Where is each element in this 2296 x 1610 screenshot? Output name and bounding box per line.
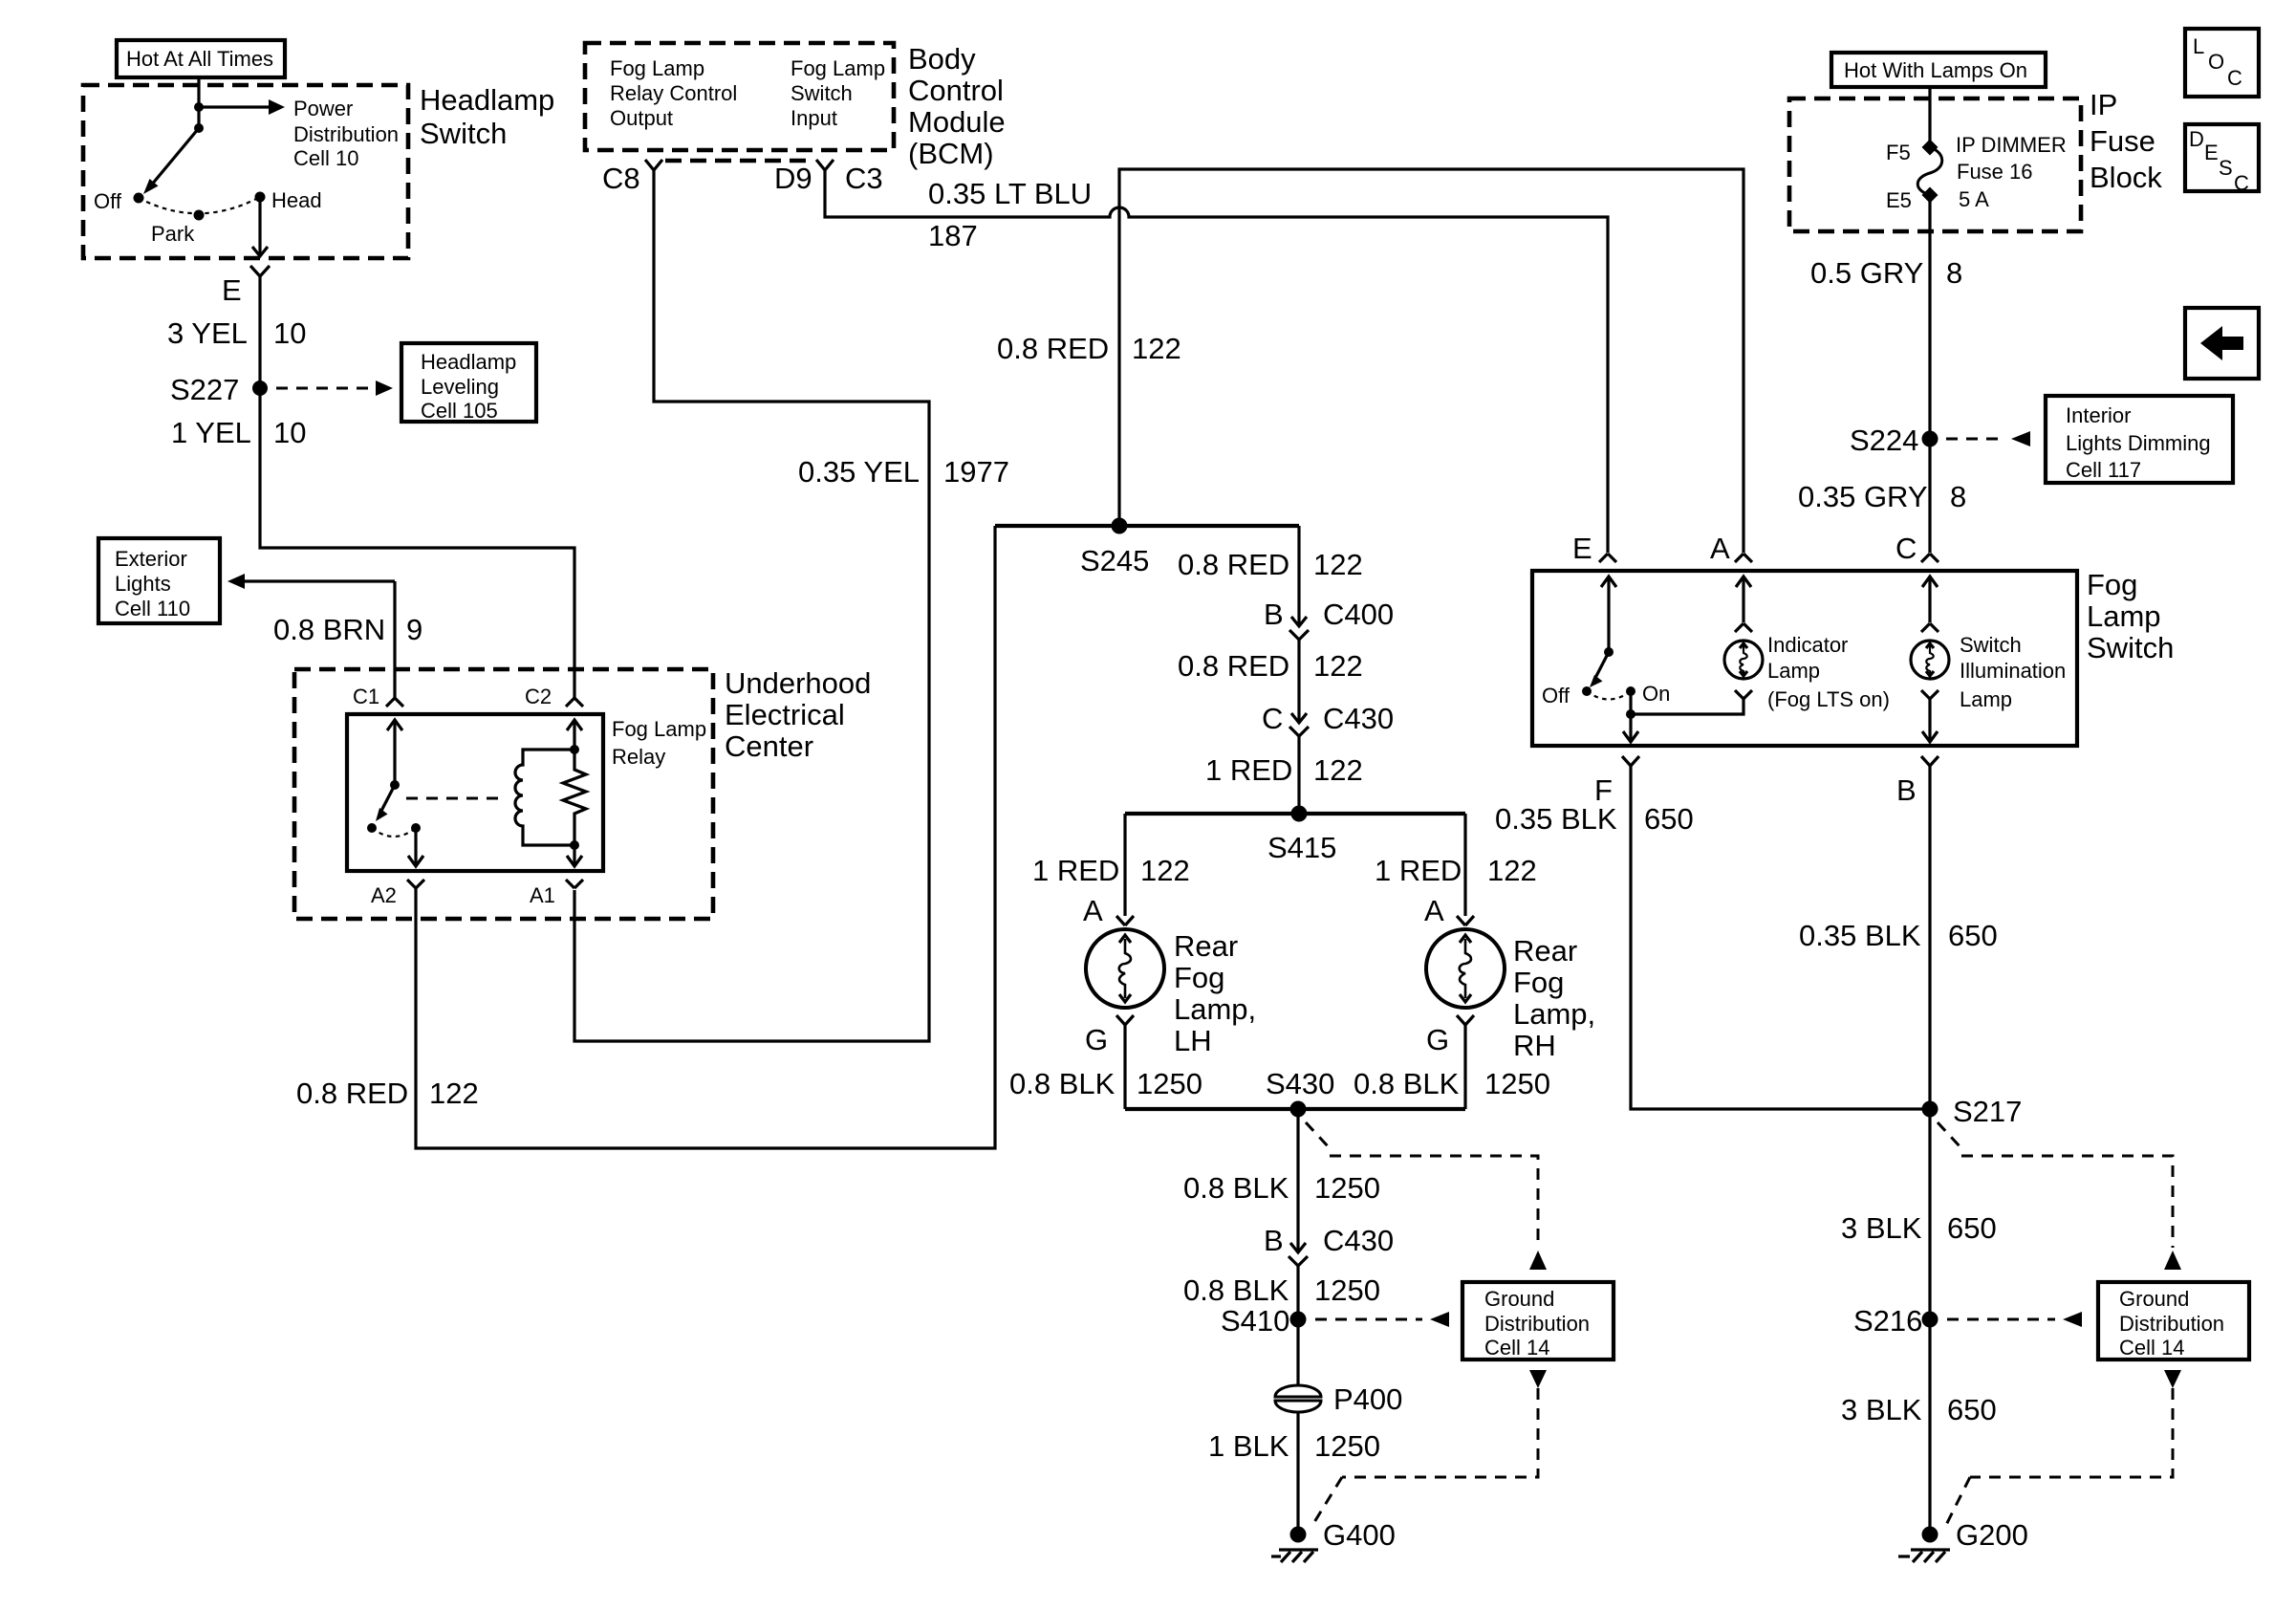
svg-text:650: 650 [1948,919,1998,952]
connector female chevron at RH lamp G [1457,1015,1474,1025]
svg-text:Off: Off [1542,684,1570,707]
connector B female chevron below box [1921,756,1939,766]
svg-text:Distribution: Distribution [2119,1312,2224,1336]
svg-text:Lamp,: Lamp, [1513,997,1595,1031]
label 0.5 GRY 8 [1810,256,1962,290]
svg-text:Fuse: Fuse [2090,124,2155,158]
svg-text:Lamp: Lamp [1960,687,2012,711]
svg-text:Fog: Fog [2087,568,2137,601]
header box "Hot At All Times" [117,40,285,77]
svg-text:10: 10 [273,316,306,350]
svg-text:Control: Control [908,74,1004,107]
connector C1 female chevron [386,698,403,707]
label IP DIMMER Fuse 16 5 A [1956,133,2067,211]
node coil top [570,745,579,754]
label 0.35 BLK 650 (F wire) [1495,802,1694,836]
wire S410 down to P400 [1296,1319,1299,1386]
svg-text:Cell 105: Cell 105 [421,399,498,423]
svg-text:C400: C400 [1323,598,1394,631]
label Switch Illumination Lamp [1960,633,2066,711]
svg-text:Off: Off [94,189,122,213]
connector D9/C3 female chevron [816,160,834,170]
svg-text:Head: Head [271,188,322,212]
svg-text:Headlamp: Headlamp [421,350,516,374]
label 0.8 BLK 1250 (LH side) [1009,1067,1202,1100]
switch A leg male arrow and wire [1736,577,1751,622]
svg-text:(BCM): (BCM) [908,137,994,170]
wire illumination lamp to box edge male arrow [1922,699,1938,742]
wire C430 to S415 [1297,736,1300,814]
svg-text:E: E [1572,532,1592,565]
svg-text:Output: Output [610,106,673,130]
label 0.8 BLK 1250 (above S410) [1183,1273,1380,1307]
wire arrow to Power Distribution Cell 10 [199,99,285,115]
svg-text:122: 122 [1487,854,1537,887]
wire from Hot At All Times into headlamp switch [197,77,200,128]
svg-text:C: C [2234,171,2249,195]
svg-text:0.8 BLK: 0.8 BLK [1354,1067,1460,1100]
svg-text:Lights Dimming: Lights Dimming [2066,431,2211,455]
svg-text:C8: C8 [602,162,640,195]
dashed travel arc Off-Park-Head [139,197,260,213]
svg-text:D9: D9 [774,162,812,195]
rear fog lamp RH [1426,929,1505,1008]
svg-text:122: 122 [429,1077,479,1110]
wire S415 left branch to LH lamp [1123,814,1126,916]
wire S245 bus [995,524,1299,528]
headlamp switch wiper arm [143,128,199,194]
relay coil [515,750,574,845]
svg-text:1977: 1977 [943,455,1009,489]
label 1 RED 122 (RH) [1375,854,1537,887]
svg-text:Headlamp: Headlamp [420,83,554,117]
connector C C430 male arrow and female chevron [1289,713,1309,736]
contact Head [255,192,266,203]
splice S216 [1922,1312,1939,1328]
svg-text:Relay: Relay [612,745,665,769]
svg-text:Hot At All Times: Hot At All Times [126,47,273,71]
left arrow reference box [2185,308,2259,379]
svg-text:Indicator: Indicator [1767,633,1848,657]
svg-text:Switch: Switch [1960,633,2022,657]
wire Head contact down to box edge, male arrow [252,197,268,256]
svg-text:0.8 RED: 0.8 RED [1178,649,1289,683]
wire E down to S227 [258,276,261,388]
svg-text:Rear: Rear [1513,934,1577,968]
node coil bottom [570,840,579,850]
relay resistor [563,750,586,845]
switch illumination lamp [1911,641,1949,679]
svg-text:C3: C3 [845,162,883,195]
node junction dot lower (switch pivot) [194,123,204,133]
dashed path Ground Distribution box to G400 [1311,1370,1547,1527]
svg-text:S227: S227 [170,373,239,406]
wire E5 down to S224 [1928,195,1931,439]
svg-text:A: A [1424,894,1444,927]
connector female chevron below indicator lamp [1735,690,1752,699]
wire junction to indicator lamp [1631,699,1744,714]
svg-text:Illumination: Illumination [1960,659,2066,683]
svg-text:1 RED: 1 RED [1205,753,1292,787]
switch E leg male arrow and wire to pivot [1601,577,1616,652]
svg-text:3 BLK: 3 BLK [1841,1393,1922,1426]
label Rear Fog Lamp, RH [1513,934,1595,1062]
svg-text:Cell 110: Cell 110 [115,597,190,620]
label Indicator Lamp (Fog LTS on) [1767,633,1890,711]
svg-text:Lamp,: Lamp, [1174,992,1256,1026]
svg-text:Lamp: Lamp [2087,599,2161,633]
svg-text:0.35 BLK: 0.35 BLK [1495,802,1617,836]
svg-text:A: A [1083,894,1103,927]
connector C female chevron [1921,554,1939,562]
svg-text:1250: 1250 [1314,1429,1380,1463]
wire B down to G200 [1928,766,1931,1534]
svg-text:Cell 14: Cell 14 [2119,1336,2184,1360]
svg-text:122: 122 [1140,854,1190,887]
svg-text:1250: 1250 [1137,1067,1202,1100]
cell box Exterior Lights Cell 110 [98,538,220,623]
svg-text:Cell 14: Cell 14 [1484,1336,1549,1360]
connector female chevron at LH lamp G [1116,1015,1134,1025]
svg-text:IP DIMMER: IP DIMMER [1956,133,2067,157]
svg-text:C430: C430 [1323,702,1394,735]
contact On [1626,686,1635,696]
wire A1 leg down to box edge male arrow [567,845,582,866]
svg-text:122: 122 [1313,753,1363,787]
svg-text:B: B [1896,773,1917,807]
svg-text:Hot With Lamps On: Hot With Lamps On [1844,58,2027,82]
label 1 BLK 1250 [1208,1429,1380,1463]
svg-text:Leveling: Leveling [421,375,499,399]
connector female chevron at LH lamp A [1116,916,1134,925]
svg-text:E: E [222,273,242,307]
svg-text:P400: P400 [1333,1382,1402,1416]
rear fog lamp LH [1086,929,1164,1008]
relay mechanical dashed link [406,797,500,800]
svg-text:Fog: Fog [1174,961,1224,994]
wire S415 right branch to RH lamp [1463,814,1466,916]
svg-text:C: C [1262,702,1283,735]
fog lamp switch solid box [1532,571,2077,746]
wire C430 to S410 [1296,1266,1299,1319]
svg-text:Fuse 16: Fuse 16 [1957,160,2033,184]
svg-text:Distribution: Distribution [1484,1312,1590,1336]
BCM pin label Fog Lamp Switch Input [791,56,885,130]
svg-text:9: 9 [406,613,422,646]
svg-text:Ground: Ground [1484,1287,1554,1311]
contact Off [1582,686,1592,696]
label 0.35 BLK 650 (B wire) [1799,919,1998,952]
svg-text:C: C [2227,66,2242,90]
svg-text:G: G [1426,1023,1449,1056]
ground G200 [1898,1527,1950,1563]
svg-text:S216: S216 [1853,1304,1922,1338]
svg-text:G: G [1085,1023,1108,1056]
svg-text:10: 10 [273,416,306,449]
IP fuse block title [2090,88,2162,194]
label 0.8 RED 122 (between connectors) [1178,649,1363,683]
svg-text:Power: Power [293,97,353,120]
svg-text:Switch: Switch [420,117,507,150]
svg-text:S217: S217 [1953,1095,2022,1128]
svg-text:0.35 YEL: 0.35 YEL [798,455,920,489]
svg-text:Cell 10: Cell 10 [293,146,358,170]
svg-text:0.8 BRN: 0.8 BRN [273,613,385,646]
svg-text:650: 650 [1644,802,1694,836]
svg-text:0.5 GRY: 0.5 GRY [1810,256,1923,290]
label 3 YEL 10 [167,316,306,350]
svg-text:A2: A2 [371,883,397,907]
IP fuse block dashed box [1789,98,2081,231]
wire C1 riser [393,581,396,699]
connector E female chevron [1599,554,1616,562]
switch pivot dot [1604,647,1614,657]
cell box Ground Distribution Cell 14 (left) [1462,1282,1614,1360]
fog lamp relay solid box [347,714,603,871]
splice S410 [1290,1312,1307,1328]
svg-text:8: 8 [1946,256,1962,290]
svg-text:122: 122 [1313,548,1363,581]
svg-text:Distribution: Distribution [293,122,399,146]
svg-text:1250: 1250 [1314,1171,1380,1205]
dashed reference arrow S227 to Headlamp Leveling [276,381,393,396]
dashed reference arrow S216 to Ground Distribution [1947,1312,2082,1327]
cell box Headlamp Leveling Cell 105 [401,343,536,423]
DESC reference box [2185,124,2259,195]
connector female chevron at RH lamp A [1457,916,1474,925]
switch arm with arrowhead [1590,652,1609,687]
cell box Ground Distribution Cell 14 (right) [2098,1282,2249,1360]
inline connector P400 [1275,1385,1321,1412]
node junction below On [1626,709,1635,719]
label 3 BLK 650 (lower) [1841,1393,1997,1426]
svg-text:On: On [1642,682,1670,706]
svg-text:0.8 RED: 0.8 RED [997,332,1109,365]
svg-text:1 BLK: 1 BLK [1208,1429,1289,1463]
BCM bottom extra dash segment [665,159,811,163]
svg-text:3 BLK: 3 BLK [1841,1211,1922,1245]
wire S415 bus [1125,812,1465,816]
wire junction down to box edge male arrow [1623,714,1638,742]
label Fog Lamp Relay [612,717,706,769]
label 0.8 BRN 9 [273,613,422,646]
svg-text:F5: F5 [1886,141,1911,164]
svg-text:1 YEL: 1 YEL [171,416,251,449]
svg-text:C: C [1895,532,1917,565]
svg-text:3 YEL: 3 YEL [167,316,248,350]
svg-text:0.35 LT BLU: 0.35 LT BLU [928,177,1092,210]
svg-text:Fog: Fog [1513,966,1564,999]
svg-text:O: O [2208,50,2224,74]
svg-text:Input: Input [791,106,837,130]
fuse 16 element [1917,147,1942,195]
svg-text:8: 8 [1950,480,1966,513]
connector C2 female chevron [566,698,583,707]
svg-text:Fog Lamp: Fog Lamp [791,56,885,80]
wire RH lamp G down to S430 bus [1463,1025,1466,1109]
label Rear Fog Lamp, LH [1174,929,1256,1057]
svg-text:E: E [2204,141,2219,164]
svg-text:5 A: 5 A [1959,187,1989,211]
relay contact (common to A2) [411,823,421,833]
svg-text:1250: 1250 [1484,1067,1550,1100]
svg-text:LH: LH [1174,1024,1212,1057]
connector B C430 male arrow and female chevron [1289,1243,1308,1266]
body control module dashed box [585,43,894,150]
headlamp switch dashed box [83,85,408,258]
label 0.35 YEL 1977 [798,455,1009,489]
svg-text:0.8 RED: 0.8 RED [1178,548,1289,581]
wire S227 down, right to C2 of underhood center [260,388,574,698]
wire 0.8 RED 122 from A2 to S245 riser [416,526,995,1148]
node junction dot upper [194,102,204,112]
svg-text:C2: C2 [525,685,552,708]
svg-text:IP: IP [2090,88,2117,121]
svg-text:Park: Park [151,222,195,246]
svg-text:A: A [1710,532,1730,565]
svg-text:B: B [1264,598,1284,631]
ground G400 [1271,1527,1318,1563]
svg-text:1250: 1250 [1314,1273,1380,1307]
svg-text:1 RED: 1 RED [1375,854,1462,887]
cell box Interior Lights Dimming Cell 117 [2046,396,2233,483]
dashed reference arrow S224 to Interior Lights Dimming [1946,431,2030,446]
svg-text:Fog Lamp: Fog Lamp [612,717,706,741]
svg-text:E5: E5 [1886,188,1912,212]
svg-text:Switch: Switch [2087,631,2174,664]
wire 0.35 LT BLU from D9/C3 to switch E (hop at x=1171) [825,170,1608,553]
connector C8 female chevron [645,160,662,170]
label Power Distribution Cell 10 [293,97,399,170]
splice S217 [1922,1101,1939,1118]
dashed travel arc Off-On [1587,691,1631,700]
label 0.8 BLK 1250 (RH side) [1354,1067,1550,1100]
connector female chevron above indicator lamp [1735,623,1752,632]
svg-text:Switch: Switch [791,81,853,105]
svg-text:Fog Lamp: Fog Lamp [610,56,704,80]
connector A2 female chevron below box [407,880,424,888]
svg-text:122: 122 [1313,649,1363,683]
svg-text:Body: Body [908,42,976,76]
wire On contact to junction [1629,691,1632,714]
BCM title [908,42,1006,170]
relay C2 leg male arrow and wire [567,720,582,750]
svg-text:0.8 BLK: 0.8 BLK [1183,1273,1289,1307]
connector A female chevron [1735,554,1752,562]
header box "Hot With Lamps On" [1831,53,2046,87]
svg-text:Relay Control: Relay Control [610,81,737,105]
wire S224 down to switch C [1928,439,1931,553]
wire P400 down to G400 [1296,1412,1299,1534]
underhood electrical center dashed box [294,669,713,919]
relay C1 leg male arrow and wire to pivot [387,720,402,785]
svg-text:Lamp: Lamp [1767,659,1820,683]
wire S430 bus [1125,1107,1465,1111]
svg-text:C1: C1 [353,685,379,708]
dashed path S430 to Ground Distribution box [1306,1122,1547,1270]
dashed path Ground Distribution box to G200 [1946,1370,2181,1525]
svg-text:122: 122 [1132,332,1181,365]
svg-text:C430: C430 [1323,1224,1394,1257]
svg-text:Underhood: Underhood [725,666,871,700]
svg-text:B: B [1264,1224,1284,1257]
svg-text:S: S [2219,156,2233,180]
splice S245 [1112,518,1128,534]
svg-text:Exterior: Exterior [115,547,187,571]
splice S224 [1922,431,1939,447]
label 0.8 RED 122 (A2 wire) [296,1077,479,1110]
label 0.8 BLK 1250 (above B C430) [1183,1171,1380,1205]
LOC reference box [2185,29,2259,97]
wire C400 to C430 [1297,640,1300,722]
relay switch arm with arrowhead [376,785,395,821]
wire S245 to connector C400 [1297,526,1300,625]
label 1 YEL 10 [171,416,306,449]
dashed path S217 to Ground Distribution box [1938,1122,2181,1270]
svg-text:S415: S415 [1267,831,1336,864]
contact Park [194,210,205,221]
svg-text:Cell 117: Cell 117 [2066,458,2141,482]
svg-text:RH: RH [1513,1029,1556,1062]
svg-text:650: 650 [1947,1211,1997,1245]
svg-text:Module: Module [908,105,1006,139]
svg-text:1 RED: 1 RED [1032,854,1119,887]
svg-text:Center: Center [725,729,813,763]
label 1 RED 122 (LH) [1032,854,1190,887]
connector B C400 male arrow and female chevron [1289,617,1309,640]
underhood electrical center title [725,666,871,763]
contact Off [134,193,144,204]
splice S415 [1291,806,1308,822]
svg-text:0.8 BLK: 0.8 BLK [1009,1067,1116,1100]
wire relay contact down to box edge male arrow [408,828,423,866]
svg-text:Interior: Interior [2066,403,2131,427]
switch C leg male arrow and wire [1922,577,1938,622]
wire arrow from C1 to Exterior Lights [227,574,395,589]
splice S430 [1290,1101,1307,1118]
label 0.8 RED 122 (above S245) [997,332,1181,365]
svg-text:187: 187 [928,219,978,252]
wire F down and right to S217 [1631,766,1930,1109]
label 0.35 GRY 8 [1798,480,1966,513]
svg-text:A1: A1 [530,883,555,907]
svg-text:Lights: Lights [115,572,171,596]
dashed reference arrow S410 to Ground Distribution [1315,1312,1449,1327]
fog lamp switch title [2087,568,2174,664]
svg-text:S224: S224 [1850,424,1918,457]
svg-text:L: L [2193,34,2204,58]
BCM pin label Fog Lamp Relay Control Output [610,56,737,130]
svg-text:0.8 RED: 0.8 RED [296,1077,408,1110]
splice S227 [252,381,268,396]
wire Hot With Lamps On down to fuse [1928,87,1931,145]
connector E female chevron below headlamp switch [250,266,270,276]
label 0.8 RED 122 (right of S245) [1178,548,1363,581]
svg-text:Rear: Rear [1174,929,1238,963]
svg-text:(Fog LTS on): (Fog LTS on) [1767,687,1890,711]
svg-text:0.8 BLK: 0.8 BLK [1183,1171,1289,1205]
svg-text:G200: G200 [1956,1518,2028,1552]
fuse 16 E5 terminal [1922,187,1939,204]
connector F female chevron below box [1622,756,1639,766]
svg-text:650: 650 [1947,1393,1997,1426]
label 1 RED 122 [1205,753,1363,787]
wire 0.8 RED from switch A to S245 [1119,169,1744,553]
wire S430 down to connector C430 [1296,1109,1299,1251]
label 3 BLK 650 (upper) [1841,1211,1997,1245]
svg-text:Ground: Ground [2119,1287,2189,1311]
svg-text:S430: S430 [1266,1067,1334,1100]
